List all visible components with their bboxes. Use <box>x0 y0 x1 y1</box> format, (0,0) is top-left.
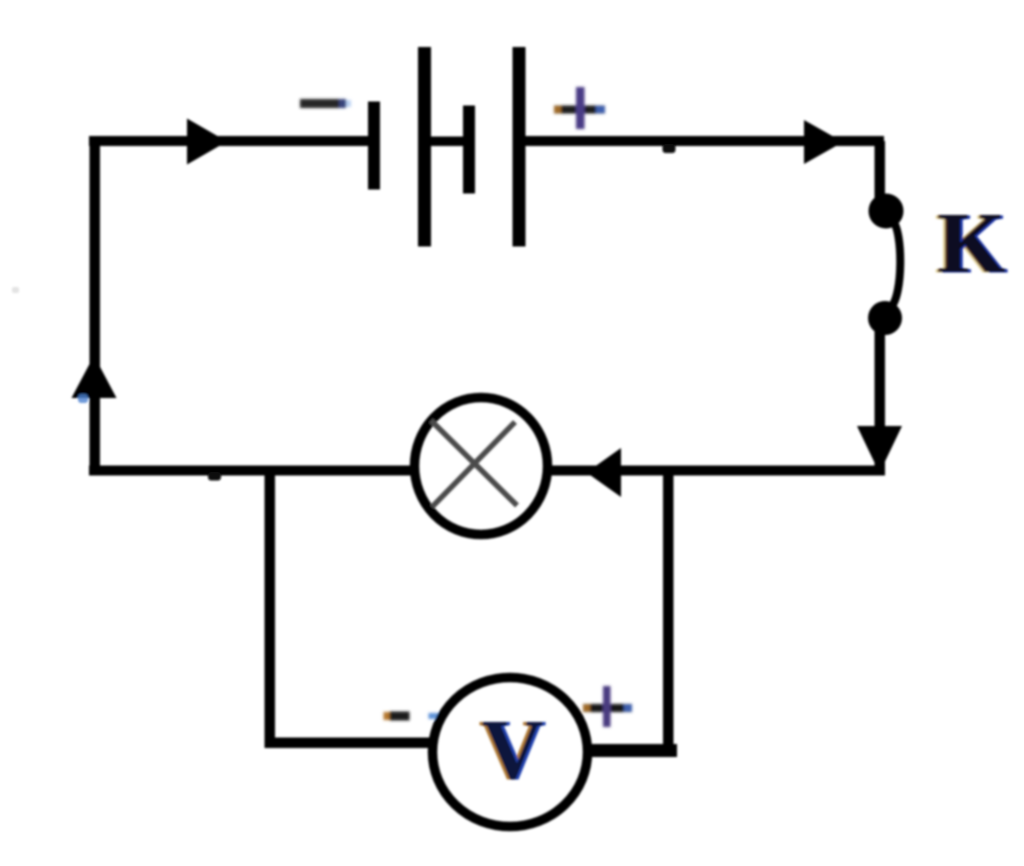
switch K blade <box>891 221 900 307</box>
wire voltmeter bottom left horizontal <box>265 738 435 749</box>
lamp L1 cross diagonal 1 <box>431 421 517 506</box>
lamp L1 cross diagonal 2 <box>432 422 515 507</box>
wire top horizontal left segment <box>89 136 373 146</box>
lamp L1 circle <box>415 398 548 535</box>
wire middle horizontal right segment <box>548 466 885 476</box>
wire left vertical <box>90 141 101 475</box>
label K <box>934 194 1008 292</box>
junction tick under top wire <box>663 144 676 153</box>
battery B1 plate tall (positive, left cell) <box>418 47 431 247</box>
wire voltmeter bottom right horizontal <box>588 744 677 757</box>
battery B1 plate short (negative, left cell) <box>368 102 380 190</box>
wire top horizontal right segment <box>523 136 884 146</box>
wire right vertical lower segment <box>875 330 886 470</box>
voltmeter V1 circle <box>433 678 588 827</box>
battery B1 plate tall (positive, right cell) <box>513 47 526 247</box>
voltmeter V1 label V <box>478 701 546 797</box>
voltmeter V1 negative label - <box>384 712 440 721</box>
battery B1 positive label + <box>554 87 605 129</box>
switch K bottom terminal dot <box>868 301 902 335</box>
blue speck at arrow base <box>78 394 88 403</box>
wire right vertical upper segment <box>875 141 886 203</box>
arrow current direction (top-right, pointing right) <box>804 120 843 164</box>
arrow current direction (middle, pointing left) <box>587 448 622 497</box>
wire voltmeter branch left vertical <box>265 470 276 748</box>
voltmeter V1 positive label + <box>583 686 632 727</box>
wire middle horizontal left segment <box>89 466 414 476</box>
stray faint speck left margin <box>12 287 19 293</box>
switch K top terminal dot <box>869 194 904 229</box>
arrow current direction (right side, pointing down) <box>857 426 902 473</box>
arrow current direction (top-left, pointing right) <box>187 119 227 165</box>
arrow current direction (left side, pointing up) <box>72 356 117 399</box>
battery B1 plate short (negative, right cell) <box>463 106 475 194</box>
svg-text:V: V <box>481 701 543 797</box>
junction tick under middle wire <box>208 472 221 481</box>
wire voltmeter branch right vertical <box>663 470 674 757</box>
svg-text:K: K <box>938 194 1006 291</box>
battery B1 negative label - <box>300 99 351 108</box>
wire battery inter-cell link <box>429 137 465 147</box>
